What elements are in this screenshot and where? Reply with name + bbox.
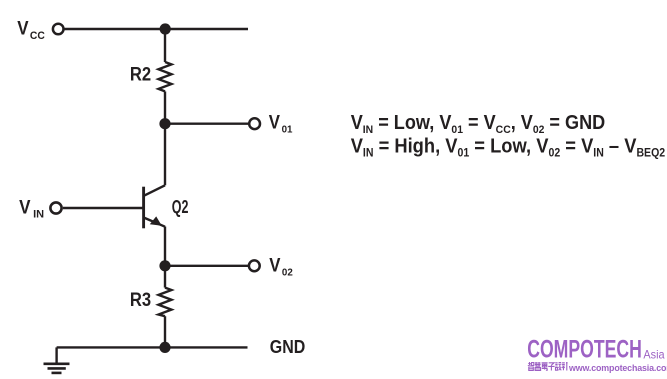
svg-text:02: 02 bbox=[282, 267, 293, 278]
svg-text:Q2: Q2 bbox=[172, 198, 189, 218]
svg-text:GND: GND bbox=[270, 337, 305, 357]
svg-text:V: V bbox=[19, 195, 31, 217]
svg-text:IN: IN bbox=[33, 208, 44, 220]
svg-text:01: 01 bbox=[282, 124, 293, 135]
svg-text:R3: R3 bbox=[130, 288, 151, 311]
svg-text:VIN = High, V01 = Low, V02 = V: VIN = High, V01 = Low, V02 = VIN – VBEQ2 bbox=[351, 136, 665, 160]
svg-text:V: V bbox=[269, 254, 280, 275]
svg-text:CC: CC bbox=[30, 30, 45, 42]
svg-text:V: V bbox=[17, 17, 29, 39]
svg-text:R2: R2 bbox=[130, 62, 151, 85]
svg-text:COMPOTECH: COMPOTECH bbox=[527, 334, 642, 363]
svg-text:Asia: Asia bbox=[643, 348, 665, 362]
svg-text:www.compotechasia.com: www.compotechasia.com bbox=[568, 363, 667, 373]
svg-text:VIN = Low, V01 = VCC, V02 = GN: VIN = Low, V01 = VCC, V02 = GND bbox=[351, 112, 606, 136]
svg-text:V: V bbox=[269, 112, 280, 133]
